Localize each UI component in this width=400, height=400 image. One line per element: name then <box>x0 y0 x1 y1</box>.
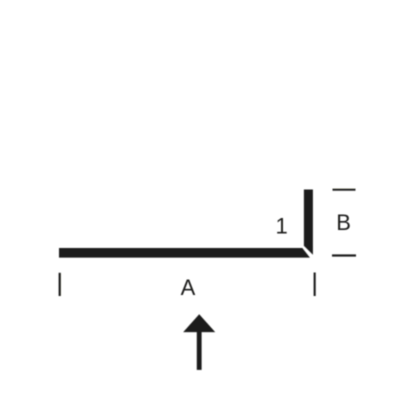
bottom tick of dimension B <box>332 254 356 256</box>
top tick of dimension B <box>333 189 356 191</box>
svg-text:1: 1 <box>275 214 287 239</box>
left tick of dimension A <box>59 273 61 296</box>
right tick of dimension A <box>314 273 316 297</box>
svg-text:B: B <box>336 210 351 235</box>
horizontal leg A of L-profile <box>59 248 310 258</box>
vertical leg B of L-profile <box>304 190 313 255</box>
svg-text:A: A <box>181 275 196 300</box>
up arrow stem <box>197 332 202 370</box>
up arrow head <box>183 314 215 332</box>
